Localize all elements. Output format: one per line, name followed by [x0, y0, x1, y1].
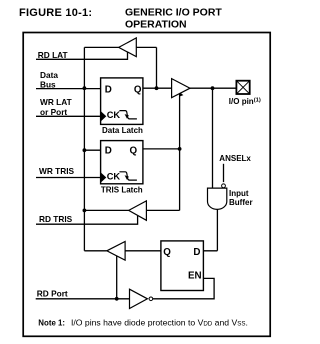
- svg-text:ANSELx: ANSELx: [219, 154, 251, 163]
- svg-text:OPERATION: OPERATION: [125, 19, 187, 31]
- svg-text:D: D: [105, 145, 112, 156]
- TRIS latch box: [101, 141, 143, 184]
- junction node: data latch Q / RD LAT buffer in: [155, 86, 159, 90]
- I/O pin pad symbol: [236, 81, 249, 94]
- svg-text:Q: Q: [134, 85, 142, 96]
- svg-text:Note 1:: Note 1:: [38, 318, 65, 327]
- wire RD TRIS buffer input: [146, 209, 179, 211]
- wire WR TRIS: [36, 177, 101, 179]
- svg-text:I/O pins have diode protection: I/O pins have diode protection to VDD an…: [71, 317, 248, 327]
- wire RD LAT: [36, 52, 128, 59]
- wire RD TRIS buffer output to bus: [84, 209, 128, 211]
- svg-text:Q: Q: [130, 145, 138, 156]
- falling edge symbol (data latch): [119, 111, 136, 119]
- junction node: driver out / input buffer tap: [211, 86, 215, 90]
- frame border: [23, 33, 270, 337]
- svg-text:CK: CK: [107, 110, 121, 120]
- svg-text:I/O pin(1): I/O pin(1): [229, 97, 261, 106]
- input buffer gate (AND, points down) with ANSELx bubble: [222, 184, 226, 188]
- signal labels: [37, 50, 75, 298]
- wire RD Port buffer output to EN: [153, 278, 215, 298]
- svg-text:Data Latch: Data Latch: [102, 126, 143, 135]
- svg-text:CK: CK: [107, 171, 121, 181]
- wire bus to port-read buffer tip: [84, 250, 106, 252]
- wire data latch Q to driver: [143, 87, 172, 89]
- junction node: bus / TRIS latch D: [83, 148, 87, 152]
- svg-text:WR LAT: WR LAT: [40, 97, 72, 107]
- enable arrowhead inside driver: [179, 93, 183, 97]
- buffer RD LAT (tri-state, points left): [119, 38, 137, 57]
- wire RD Port: [36, 298, 130, 300]
- svg-text:GENERIC I/O PORT: GENERIC I/O PORT: [125, 7, 222, 19]
- inverter bubble: [149, 297, 153, 301]
- svg-text:EN: EN: [188, 271, 202, 282]
- svg-text:Buffer: Buffer: [229, 198, 253, 207]
- svg-text:or Port: or Port: [40, 107, 67, 117]
- wire ANSELx: [223, 164, 225, 182]
- wire TRIS latch Q: [143, 148, 180, 150]
- junction node: TRIS Q / enable riser: [178, 147, 182, 151]
- figure title: [19, 7, 222, 31]
- clock wedge (TRIS latch): [101, 172, 107, 183]
- svg-text:FIGURE 10-1:: FIGURE 10-1:: [19, 7, 92, 19]
- wire RD TRIS: [36, 216, 138, 225]
- wire WR LAT: [36, 115, 101, 117]
- svg-text:RD TRIS: RD TRIS: [39, 214, 73, 224]
- svg-text:D: D: [193, 247, 200, 258]
- svg-text:TRIS Latch: TRIS Latch: [101, 186, 143, 195]
- buffer RD Port (points right, with bubble): [130, 289, 148, 308]
- wire port-read buffer input from latch Q: [125, 250, 161, 252]
- svg-text:WR TRIS: WR TRIS: [39, 166, 74, 176]
- svg-text:RD Port: RD Port: [37, 288, 68, 298]
- junction node: bus / data latch D: [83, 86, 87, 90]
- wire RD LAT buffer output to data bus: [84, 46, 118, 48]
- junction node: RD Port / read enable riser: [115, 297, 119, 301]
- output driver U1 (points right): [172, 79, 190, 98]
- wire input buffer output to latch D: [203, 209, 217, 251]
- wire driver output to I/O pin: [190, 87, 236, 89]
- wire data bus label to data latch D: [36, 88, 101, 90]
- wire driver enable from TRIS latch Q: [179, 94, 181, 211]
- svg-text:Q: Q: [163, 247, 171, 258]
- wire RD LAT buffer input riser: [136, 47, 156, 88]
- port latch box: [161, 241, 204, 291]
- wire I/O pin to input buffer: [212, 88, 214, 188]
- wire TRIS latch D from bus: [84, 149, 100, 151]
- junction node: bus / RD TRIS buffer out: [83, 209, 87, 213]
- clock wedge (data latch): [101, 111, 107, 122]
- data latch box: [101, 78, 143, 125]
- svg-text:Bus: Bus: [40, 80, 56, 90]
- svg-text:RD LAT: RD LAT: [38, 50, 68, 60]
- svg-text:D: D: [105, 85, 112, 96]
- buffer port read (points left): [107, 242, 125, 261]
- wire port-read buffer enable riser: [116, 256, 118, 299]
- falling edge symbol (TRIS latch): [119, 172, 136, 180]
- buffer RD TRIS (points left): [129, 201, 147, 220]
- wire data bus vertical: [83, 47, 85, 250]
